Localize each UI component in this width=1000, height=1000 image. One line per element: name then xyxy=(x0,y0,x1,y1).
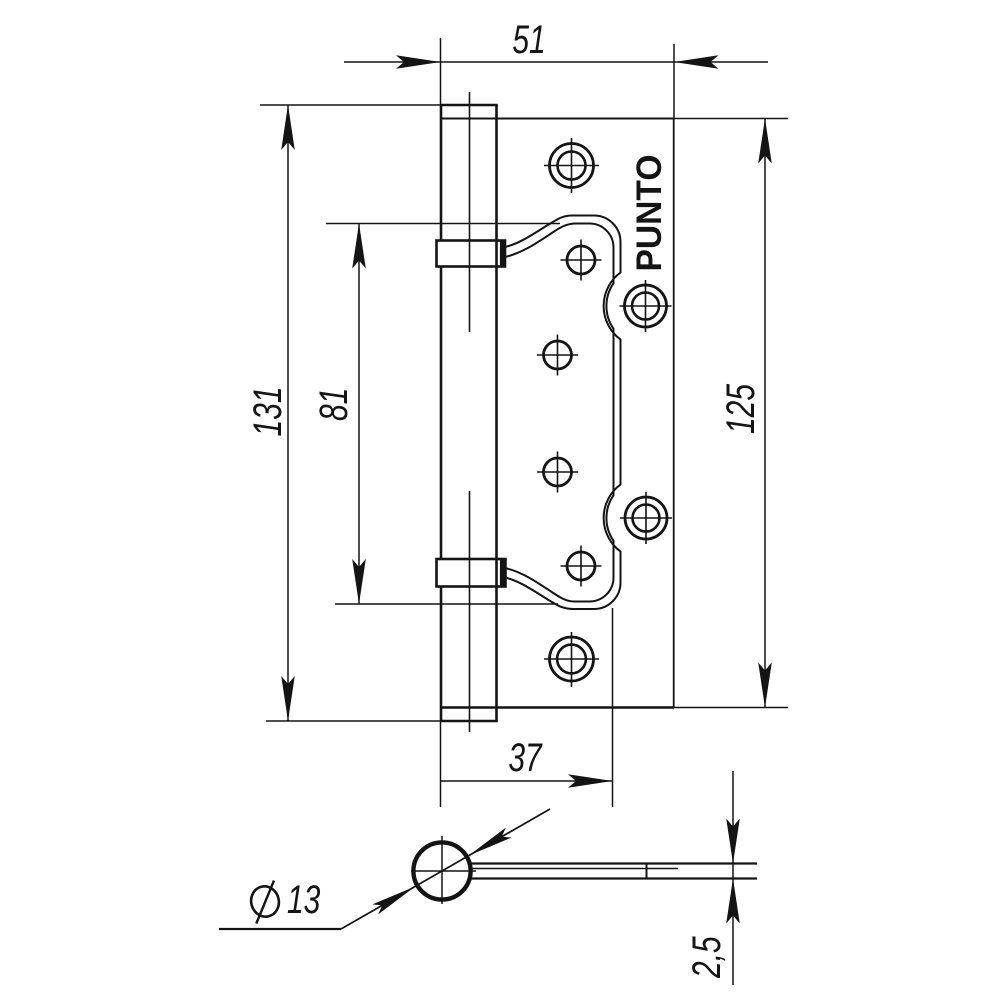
svg-text:2,5: 2,5 xyxy=(685,936,729,979)
knuckle left edge xyxy=(440,105,443,721)
top ferrule xyxy=(437,241,506,267)
bottom ferrule xyxy=(437,559,506,587)
extension line 37 right xyxy=(612,608,614,807)
screw hole E (small) xyxy=(544,458,572,486)
knuckle right edge xyxy=(495,105,498,721)
leaf side view bottom surface xyxy=(471,877,757,879)
pin cross-section circle xyxy=(413,842,470,899)
dimension 81 line xyxy=(358,224,360,605)
svg-text:PUNTO: PUNTO xyxy=(630,155,669,272)
extension line 81 top xyxy=(326,223,560,225)
extension line 37 left xyxy=(440,721,442,807)
extension line 131 bottom xyxy=(266,720,440,722)
screw hole H (bottom, countersunk) xyxy=(550,637,594,681)
screw hole C (right upper, countersunk) xyxy=(625,285,667,327)
top ferrule right bar xyxy=(500,240,505,267)
dimension 131 line xyxy=(287,105,289,721)
pin circle crosshair xyxy=(411,836,476,904)
dimension 37 arrow xyxy=(568,774,613,788)
diameter leader upper arrow xyxy=(469,828,512,856)
inner leaf contour outer line xyxy=(505,216,621,610)
screw hole G (small) xyxy=(567,552,595,580)
screw hole F (right lower, countersunk) xyxy=(625,497,667,539)
leaf side view middle line xyxy=(471,868,678,870)
dimension 2,5 top arrow xyxy=(726,819,740,864)
dimension 37 line xyxy=(441,780,613,782)
leaf side view top surface xyxy=(471,862,757,864)
plate bottom edge xyxy=(441,706,674,708)
dimension 125 line xyxy=(764,119,766,708)
dimension 2,5 bottom arrow xyxy=(726,879,740,924)
plate right edge xyxy=(673,119,675,708)
extension line 131 top xyxy=(260,104,440,106)
plate top edge xyxy=(441,118,674,120)
pin centerline xyxy=(469,92,471,732)
svg-text:37: 37 xyxy=(508,736,542,780)
diameter leader line xyxy=(341,809,550,929)
knuckle bottom edge xyxy=(440,720,498,723)
svg-text:13: 13 xyxy=(287,878,321,922)
svg-text:125: 125 xyxy=(719,384,763,434)
extension line 81 bottom xyxy=(335,603,558,605)
dimension 125 bottom arrow xyxy=(758,663,772,708)
label diameter 13 xyxy=(248,878,321,924)
diameter leader tail xyxy=(219,928,341,930)
plate bottom extension (125) xyxy=(674,707,788,709)
plate top extension (125) xyxy=(674,118,788,120)
svg-text:81: 81 xyxy=(312,388,356,421)
screw hole B (small) xyxy=(567,246,595,274)
dimension 51 line xyxy=(344,61,768,63)
svg-text:51: 51 xyxy=(512,18,545,62)
diameter leader lower arrow xyxy=(372,887,415,915)
dimension 131 bottom arrow xyxy=(281,676,295,721)
inner leaf contour inner line xyxy=(505,224,614,602)
knuckle top edge xyxy=(440,104,498,107)
dimension 2,5 line xyxy=(732,771,734,985)
extension line right of 51 xyxy=(673,44,675,118)
dimension 51 left arrow xyxy=(396,55,441,69)
dimension 51 right arrow xyxy=(674,55,719,69)
dimension 81 top arrow xyxy=(352,224,366,269)
screw hole D (small) xyxy=(544,341,572,369)
leaf side view end cap xyxy=(646,863,648,880)
extension line left of 51 xyxy=(440,38,442,105)
bottom ferrule right bar xyxy=(500,559,505,588)
dimension 81 bottom arrow xyxy=(352,559,366,604)
svg-text:131: 131 xyxy=(246,386,290,436)
dimension 131 top arrow xyxy=(281,105,295,150)
dimension 125 top arrow xyxy=(758,119,772,164)
screw hole A (top, countersunk) xyxy=(550,144,594,188)
